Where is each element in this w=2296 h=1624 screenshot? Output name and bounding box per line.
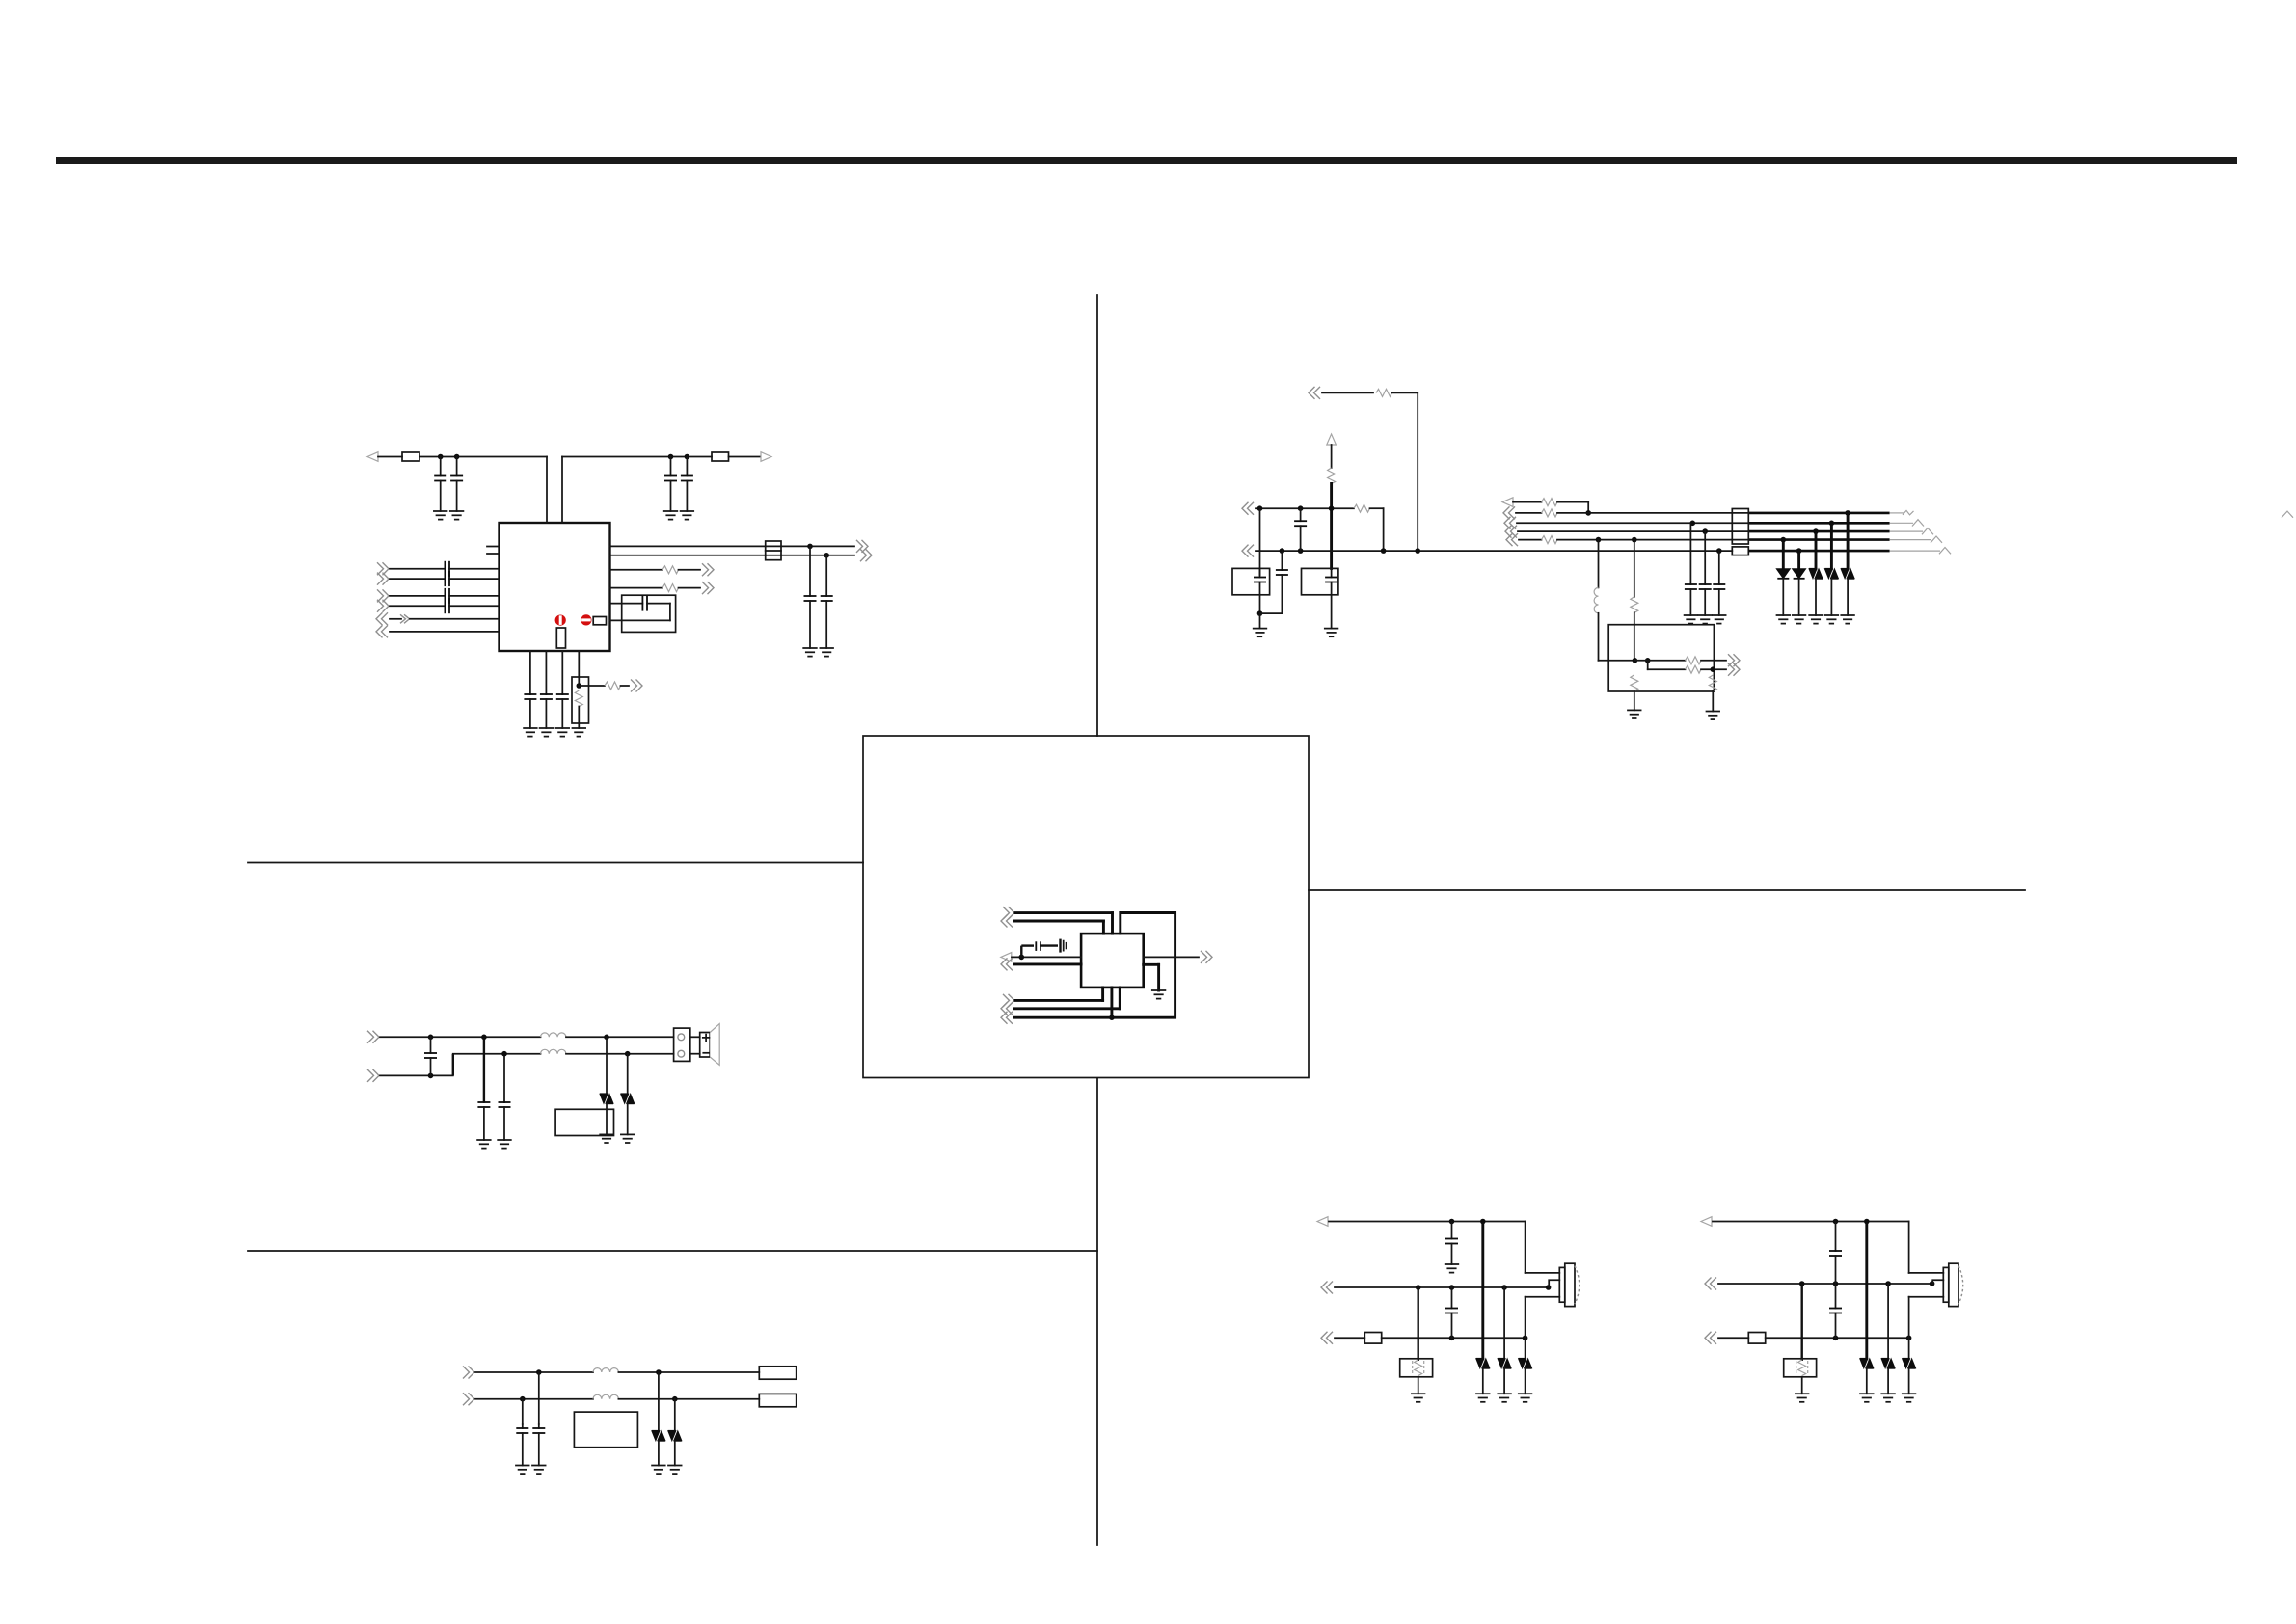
TVS diode: [1481, 1222, 1484, 1359]
junction: [1523, 1336, 1528, 1341]
ground: [1698, 615, 1712, 624]
connector chevron: [1242, 502, 1254, 515]
wire rail1: [1256, 507, 1354, 509]
junction: [1415, 548, 1420, 554]
junction: [501, 1051, 507, 1057]
junction: [428, 1073, 434, 1079]
wire: [579, 685, 605, 687]
connector chevron: [702, 582, 714, 594]
ground: [540, 728, 554, 737]
direction arrow: [390, 618, 401, 620]
junction: [1546, 1285, 1552, 1290]
wire: [1144, 963, 1159, 966]
ground: [556, 728, 570, 737]
junction: [454, 454, 460, 460]
ground: [1445, 1264, 1459, 1273]
junction: [1480, 1219, 1486, 1225]
junction: [1298, 548, 1304, 554]
junction: [1645, 658, 1651, 663]
ferrite bead FB2: [712, 452, 729, 461]
connector chevron: [702, 563, 714, 576]
ground: [1519, 1394, 1532, 1402]
capacitor to gnd: [538, 1372, 540, 1424]
ground: [1881, 1394, 1895, 1402]
wire: [1157, 964, 1160, 990]
junction: [1799, 1281, 1805, 1286]
ground: [524, 728, 537, 737]
TVS diode: [1847, 513, 1850, 569]
connector arrow right: [761, 452, 771, 462]
junction: [520, 1396, 526, 1402]
junction: [1381, 548, 1387, 554]
wire line3: [1718, 1337, 1748, 1339]
wire: [1015, 911, 1113, 914]
series resistor: [1686, 665, 1702, 673]
capacitor: [1689, 523, 1691, 584]
series resistor: [662, 584, 679, 592]
wire: [562, 456, 712, 458]
junction: [1257, 610, 1263, 616]
wire: [546, 457, 548, 524]
connector arrow: [1317, 1217, 1328, 1227]
junction: [1930, 1281, 1935, 1286]
center section box: [863, 736, 1309, 1078]
wire: [1525, 1222, 1526, 1273]
connector chevron: [1001, 915, 1013, 928]
chassis ground: [1059, 939, 1061, 953]
wire: [610, 545, 766, 547]
wire rail2 cont: [1748, 550, 1889, 553]
capacitor: [529, 693, 531, 695]
wire step: [1647, 661, 1649, 669]
junction: [1781, 537, 1787, 543]
wire: [618, 1371, 759, 1373]
wire line1: [380, 1036, 541, 1038]
wire: [1259, 613, 1261, 629]
capacitor: [503, 1101, 505, 1103]
ground: [621, 1134, 635, 1143]
junction: [1632, 537, 1637, 543]
ferrite bead FB1: [402, 452, 419, 461]
wire: [781, 555, 854, 556]
connector chevron: [856, 540, 868, 553]
TVS array box: [555, 1109, 613, 1135]
capacitor: [1281, 551, 1283, 570]
connector chevron: [376, 625, 388, 637]
junction: [1416, 1285, 1421, 1290]
wire: [1020, 946, 1022, 958]
wire: [1111, 913, 1114, 934]
TVS diode 1: [606, 1037, 608, 1094]
connector chevron: [1201, 951, 1212, 963]
junction: [1690, 521, 1696, 527]
ground: [573, 728, 586, 737]
bias resistor box: [1417, 1287, 1418, 1361]
connector chevron: [377, 562, 389, 575]
connector arrow: [1701, 1217, 1712, 1227]
capacitor: [561, 693, 563, 695]
wire: [1383, 508, 1385, 551]
capacitor: [483, 1101, 485, 1103]
section divider vertical upper: [1096, 295, 1098, 736]
wire: [669, 604, 671, 621]
ground: [1707, 712, 1720, 720]
ground: [1809, 615, 1823, 624]
ferrite bead: [1748, 1333, 1765, 1344]
wire: [1021, 944, 1034, 946]
connector arrow left: [367, 452, 378, 462]
wire: [1014, 1016, 1112, 1019]
resistor to gnd: [1709, 675, 1716, 691]
series resistor: [1354, 504, 1370, 512]
wire: [561, 651, 563, 694]
connector chevron: [377, 600, 389, 612]
pin stub: [487, 553, 500, 555]
bus line L1: [1502, 498, 1513, 507]
ground: [1860, 1394, 1874, 1402]
junction: [1833, 1219, 1839, 1225]
junction: [672, 1396, 678, 1402]
junction: [625, 1051, 631, 1057]
IC U1: [500, 523, 610, 651]
capacitor: [538, 1424, 540, 1428]
power arrow up: [1327, 434, 1337, 445]
level shifter box U2: [1608, 625, 1714, 691]
wire: [1331, 595, 1333, 629]
junction: [1833, 1281, 1839, 1286]
speaker SP1: [690, 1036, 700, 1038]
connector chevron: [1003, 994, 1014, 1007]
wire line1: [475, 1371, 593, 1373]
capacitor: [545, 693, 547, 695]
wire line2: [475, 1398, 593, 1400]
wire from mic: [1909, 1296, 1944, 1298]
ground: [652, 1466, 665, 1475]
wire to mic: [1526, 1272, 1560, 1274]
wire to mic: [1909, 1272, 1944, 1274]
test pad TP1: [759, 1367, 796, 1379]
wire: [545, 651, 547, 694]
wire: [453, 1053, 541, 1055]
inductor: [593, 1368, 618, 1372]
junction: [1716, 548, 1722, 554]
junction: [1019, 955, 1025, 961]
junction: [1280, 548, 1285, 554]
fuse F1: [1732, 547, 1748, 555]
ground: [1685, 615, 1698, 624]
ferrite bead: [1364, 1333, 1381, 1344]
crystal Y1: [1302, 568, 1338, 594]
wire: [1634, 612, 1635, 661]
junction: [1845, 510, 1850, 516]
coupling capacitor: [390, 595, 445, 597]
connector chevron: [463, 1367, 474, 1379]
capacitor: [440, 457, 442, 476]
wire: [1766, 1337, 1909, 1339]
bias resistor box: [1800, 1284, 1802, 1361]
coupling capacitor: [390, 578, 445, 580]
wire: [410, 618, 500, 620]
TVS diode: [1815, 531, 1818, 569]
junction: [1885, 1281, 1891, 1286]
wire: [1012, 956, 1081, 958]
resistor in box: [575, 690, 582, 707]
ground: [664, 511, 678, 520]
connector chevron: [1505, 526, 1517, 538]
ground: [1476, 1394, 1490, 1402]
junction: [1702, 528, 1708, 534]
diode D: [1797, 551, 1800, 569]
wire line3: [1335, 1337, 1364, 1339]
center IC U3: [1081, 934, 1144, 988]
TVS diode: [674, 1399, 676, 1431]
ground: [498, 1140, 511, 1149]
wire: [1908, 1222, 1910, 1273]
pin stub: [487, 546, 500, 548]
junction: [1633, 658, 1638, 663]
capacitor in crystal: [1259, 568, 1261, 577]
connector chevron: [1242, 545, 1254, 557]
junction: [577, 683, 582, 689]
wire: [578, 707, 580, 729]
series resistor: [1686, 657, 1702, 664]
capacitor: [1704, 531, 1706, 584]
TVS diode: [658, 1372, 660, 1431]
capacitor: [686, 457, 688, 476]
ground: [1325, 629, 1338, 637]
crystal capacitor: [610, 603, 643, 605]
capacitor: [1451, 1222, 1453, 1239]
ground: [532, 1466, 546, 1475]
junction: [536, 1369, 542, 1375]
connector chevron: [1503, 506, 1515, 519]
ground: [1254, 629, 1267, 637]
wire rail2: [1256, 550, 1732, 552]
microphone MK MIC1: [1559, 1267, 1565, 1302]
wire: [610, 619, 670, 621]
TVS diode: [1887, 1284, 1889, 1359]
TVS diode: [1503, 1287, 1505, 1359]
connector arrow: [1001, 953, 1012, 962]
wire: [621, 685, 630, 687]
capacitor: [1835, 1284, 1837, 1309]
capacitor: [825, 555, 827, 596]
connector chevron: [1309, 387, 1320, 399]
capacitor to gnd 1: [483, 1037, 485, 1102]
junction: [1449, 1285, 1455, 1290]
wire: [610, 569, 663, 571]
junction: [1596, 537, 1602, 543]
wire: [561, 457, 563, 524]
connector chevron: [1504, 517, 1516, 529]
junction: [1449, 1219, 1455, 1225]
wire jog: [452, 1054, 454, 1076]
wire out: [1144, 956, 1199, 958]
inductor: [541, 1033, 566, 1037]
coupling capacitor: [390, 605, 445, 607]
TVS diode: [1865, 1222, 1868, 1359]
wire: [729, 456, 762, 458]
wire: [1382, 1337, 1526, 1339]
junction: [807, 544, 813, 550]
capacitor: [1300, 508, 1302, 521]
ground: [1628, 710, 1641, 718]
mic return wire: [1525, 1297, 1526, 1359]
series resistor: [1328, 468, 1336, 484]
wire: [529, 651, 531, 694]
inductor: [593, 1394, 618, 1398]
connector chevron: [1321, 1332, 1333, 1344]
connector chevron: [1001, 1002, 1013, 1015]
junction: [685, 454, 690, 460]
wire: [618, 1398, 759, 1400]
junction: [1864, 1219, 1870, 1225]
wire: [390, 631, 500, 633]
capacitor: [430, 1037, 432, 1053]
wire: [781, 545, 854, 547]
connector chevron: [463, 1393, 474, 1405]
wire: [1014, 920, 1103, 923]
junction: [604, 1035, 609, 1041]
wire: [1322, 392, 1373, 393]
wire: [419, 456, 547, 458]
ground: [1825, 615, 1839, 624]
connector chevron: [1728, 663, 1740, 676]
off-page caret far right: [2282, 511, 2293, 518]
ground: [1152, 990, 1166, 999]
junction: [438, 454, 444, 460]
wire: [1101, 988, 1104, 1001]
ground: [450, 511, 464, 520]
connector chevron: [860, 549, 872, 561]
crystal X1: [622, 595, 676, 632]
frame wire: [1112, 913, 1175, 1018]
mic return wire: [1908, 1297, 1910, 1359]
inductor: [541, 1049, 566, 1053]
connector chevron: [631, 680, 642, 692]
TVS diode 2: [627, 1054, 629, 1095]
wire: [1119, 988, 1121, 1009]
junction: [481, 1035, 487, 1041]
ground: [1793, 615, 1806, 624]
ground: [1777, 615, 1791, 624]
connector chevron: [1001, 1012, 1013, 1024]
capacitor: [670, 457, 672, 476]
connector chevron: [377, 589, 389, 602]
junction: [1906, 1336, 1912, 1341]
section divider vertical lower: [1096, 1078, 1098, 1545]
capacitor: [1835, 1222, 1837, 1252]
series resistor: [1542, 499, 1558, 506]
wire: [1015, 999, 1103, 1002]
section divider right: [1309, 889, 2025, 891]
junction: [1501, 1285, 1507, 1290]
wire: [1370, 507, 1384, 509]
wire line2: [1718, 1283, 1932, 1285]
ground: [1903, 1394, 1916, 1402]
series resistor: [1542, 536, 1558, 544]
connector chevron: [1705, 1332, 1716, 1344]
wire line2: [380, 1074, 453, 1076]
wire: [1598, 613, 1600, 661]
connector chevron: [1003, 907, 1014, 919]
capacitor: [1718, 551, 1720, 584]
connector chevron: [367, 1031, 379, 1043]
no-connect marker 1: [555, 615, 566, 626]
ground: [1713, 615, 1726, 624]
connector chevron: [1321, 1282, 1333, 1294]
junction: [1298, 505, 1304, 511]
inductor L1: [1598, 540, 1600, 588]
test pad TP2: [759, 1394, 796, 1406]
junction: [824, 553, 829, 558]
resistor to gnd: [1631, 675, 1638, 691]
wire out2: [1648, 668, 1686, 670]
wire: [1634, 540, 1635, 597]
ground: [820, 648, 833, 657]
ground: [1796, 1394, 1809, 1402]
pin wire: [1110, 988, 1113, 1017]
ground: [516, 1466, 529, 1475]
resistor R1: [556, 628, 565, 648]
wire: [1392, 392, 1418, 393]
connector chevron: [1001, 958, 1013, 970]
ground: [1412, 1394, 1425, 1402]
title bar: [56, 157, 2237, 164]
capacitor: [456, 457, 458, 476]
junction: [1449, 1336, 1455, 1341]
connector chevron: [376, 612, 388, 625]
wire: [566, 1053, 674, 1055]
crystal Y2: [1232, 568, 1270, 594]
ground: [668, 1466, 682, 1475]
connector chevron: [367, 1069, 379, 1082]
ground: [681, 511, 694, 520]
connector chevron: [1728, 654, 1740, 666]
microphone MK MIC2: [1943, 1267, 1949, 1302]
resistor: [1631, 597, 1638, 613]
wire line1: [1713, 1221, 1909, 1223]
series resistor: [1542, 509, 1558, 517]
wire: [1040, 944, 1058, 946]
component box: [574, 1412, 637, 1448]
wire: [578, 651, 580, 686]
capacitor to gnd: [522, 1399, 524, 1424]
junction: [428, 1035, 434, 1041]
wire from mic: [1526, 1296, 1560, 1298]
capacitor: [809, 546, 811, 596]
junction: [1796, 548, 1802, 554]
wire: [610, 555, 766, 556]
connector chevron: [377, 573, 389, 585]
ground: [1498, 1394, 1511, 1402]
ground: [803, 648, 817, 657]
junction: [1109, 1015, 1115, 1020]
wire: [1417, 392, 1418, 551]
ground: [1841, 615, 1854, 624]
choke block T2: [1732, 509, 1748, 545]
junction: [656, 1369, 662, 1375]
wire out1: [1634, 660, 1685, 662]
capacitor in crystal: [1331, 568, 1333, 577]
capacitor: [522, 1424, 524, 1428]
section divider left lower: [248, 1250, 1097, 1252]
common mode choke T1: [766, 541, 781, 560]
pin box: [593, 617, 606, 625]
wire: [1331, 445, 1333, 468]
wire: [1890, 550, 1940, 552]
wire line1: [1329, 1221, 1526, 1223]
